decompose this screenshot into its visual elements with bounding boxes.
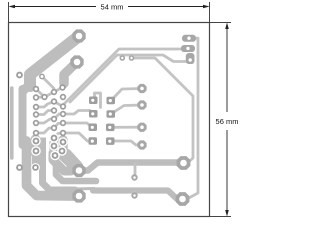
- square pad B3: [106, 124, 115, 132]
- svg-text:54 mm: 54 mm: [101, 3, 124, 12]
- stub to via v2: [133, 192, 136, 195]
- top edge extension to right: [210, 22, 232, 24]
- ring pad g1: [120, 55, 126, 61]
- left edge thin vertical trace: [10, 88, 14, 158]
- square pad B4: [106, 137, 115, 145]
- IC cluster pads column x=54 upper: [51, 89, 57, 95]
- top right pad TP1: [182, 35, 196, 42]
- elbow e1 trace dead-end band: [56, 161, 96, 181]
- big pad PB: [72, 189, 85, 202]
- hook trace at pad A1: [95, 93, 101, 108]
- round pad r4: [137, 140, 146, 149]
- horizontal dimension line 54mm: [9, 5, 210, 9]
- via v2: [131, 192, 137, 198]
- svg-text:56 mm: 56 mm: [216, 117, 239, 126]
- big pad P2: [70, 55, 83, 68]
- bottom trace from pad PA to pad R1: [79, 163, 184, 171]
- stub to via v1: [134, 164, 137, 176]
- square pad A1: [89, 97, 98, 105]
- left extension line: [8, 2, 10, 23]
- square pad A3: [89, 124, 98, 132]
- round pad r2: [137, 100, 146, 109]
- vertical dimension line 56mm: [225, 23, 229, 217]
- ring pad g2: [129, 55, 135, 61]
- bottom edge extension to right: [210, 216, 232, 218]
- trace T2 from pad P2: [64, 62, 77, 84]
- top right pad TP3: [186, 53, 195, 64]
- trace IC row to A2: [63, 111, 90, 115]
- right extension line: [209, 2, 211, 23]
- trace IC row to A4: [63, 133, 92, 141]
- big pad P1: [72, 29, 85, 42]
- thin trace L1 to pad TP2: [62, 49, 182, 106]
- ring pad left top: [16, 72, 23, 79]
- via v1: [131, 174, 137, 180]
- trace T1 thick diagonal from pad P1: [30, 36, 79, 86]
- square pad A4: [89, 137, 98, 145]
- big pad R2: [176, 192, 190, 206]
- board outline: [9, 23, 210, 217]
- round pad r1: [137, 84, 146, 93]
- round pad r3: [137, 123, 146, 132]
- thin trace L3 ring2 to right vertical to pad R1: [132, 58, 194, 163]
- top right pad TP2: [181, 45, 195, 52]
- trace B3 to round pad r3: [111, 126, 143, 129]
- trace B4 to round pad r4: [111, 141, 143, 145]
- thin trace L2 to pad TP3: [70, 55, 186, 102]
- trace B1 to round pad r1: [111, 89, 142, 101]
- trace from ring pad 42,76 down to pad 54,92: [42, 77, 54, 93]
- trace T1 vertical narrow tail: [19, 89, 27, 145]
- big pad R1: [177, 156, 191, 170]
- copper mass around pads 36,141-151: [32, 138, 46, 156]
- lower cluster copper zone: [31, 139, 41, 153]
- elbow e2 wide band to pad R2: [93, 191, 177, 199]
- IC cluster pads column x=63: [59, 84, 66, 136]
- cluster interconnect traces: [36, 89, 45, 97]
- ring pad left bottom: [16, 164, 23, 171]
- thin trace L4 pad TP1 down right side to pad R2: [187, 38, 198, 199]
- ring pad 42,76: [39, 74, 45, 80]
- square pad B2: [107, 110, 116, 118]
- trace IC row to A3: [63, 123, 92, 127]
- big pad PA: [72, 164, 85, 177]
- IC cluster pads column x=36: [33, 86, 39, 136]
- elbow e2 neck under pad A: [73, 187, 94, 191]
- outer elbow to pad PB: [27, 141, 75, 196]
- inner blob trace to pad PA: [54, 153, 77, 169]
- square pad B1: [107, 97, 116, 105]
- square pad A2: [89, 110, 98, 118]
- zone pads with clearance: [31, 133, 68, 172]
- elbow e2 vertical: [43, 150, 76, 190]
- trace B2 to round pad r2: [111, 105, 142, 114]
